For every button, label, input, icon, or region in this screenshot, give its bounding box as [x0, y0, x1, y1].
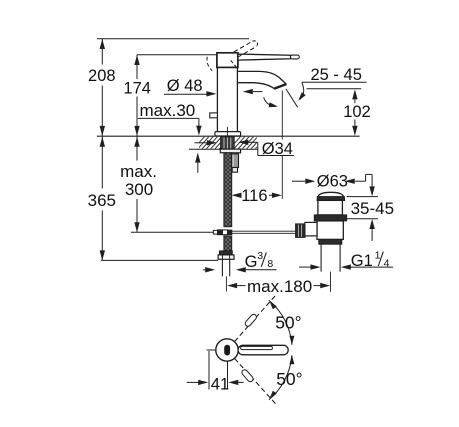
drain bottom collar — [319, 239, 342, 244]
mounting washer — [220, 149, 240, 153]
pull rod right segment (double line) — [232, 230, 304, 232]
svg-text:G1: G1 — [351, 252, 373, 270]
raised handle position dashed — [234, 41, 253, 52]
dim 174 vertical line — [136, 55, 138, 79]
left tick — [207, 349, 216, 351]
drain clamp ring — [314, 215, 346, 221]
hose ferrule — [219, 251, 232, 255]
body left tab — [210, 113, 218, 118]
capsule lower — [241, 369, 254, 383]
svg-text:4: 4 — [384, 257, 390, 269]
handle swing dashed mark right — [231, 60, 237, 68]
svg-text:35-45: 35-45 — [351, 199, 394, 218]
svg-text:116: 116 — [241, 187, 267, 205]
dim 41 arrows — [187, 381, 199, 383]
svg-text:365: 365 — [88, 191, 116, 210]
top reference line (max handle height) — [97, 38, 249, 40]
svg-text:300: 300 — [125, 180, 153, 199]
dim 41 extension lines — [208, 351, 210, 390]
mounting stud — [232, 154, 239, 168]
dim 365 vertical line — [101, 137, 103, 189]
dim max180 — [227, 283, 237, 288]
svg-text:50°: 50° — [275, 313, 301, 333]
dim Ø48 leader — [164, 93, 207, 95]
365 bottom reference line — [101, 259, 218, 261]
drain lower body — [317, 221, 343, 240]
svg-text:max.30: max.30 — [140, 101, 196, 120]
svg-text:G: G — [245, 253, 258, 271]
threaded shank — [221, 137, 235, 149]
drain centerline extension — [330, 272, 332, 292]
svg-text:50°: 50° — [276, 369, 302, 389]
lower 50 deg arc — [269, 355, 292, 400]
dim 35-45 — [371, 174, 373, 186]
stream angle arc right — [300, 82, 303, 99]
handle swing dashed arc left — [207, 57, 212, 71]
dim Ø63 — [292, 180, 305, 182]
upper 50 deg arc — [269, 300, 292, 345]
aerator face — [274, 84, 286, 89]
capsule upper — [244, 313, 257, 327]
drain upper body — [318, 200, 343, 215]
faucet centerline mark — [226, 127, 228, 136]
svg-text:Ø63: Ø63 — [317, 172, 348, 190]
drain flange dark band — [317, 197, 344, 201]
svg-text:41: 41 — [211, 375, 229, 393]
dim max300 vertical line — [136, 137, 138, 161]
dim Ø34 arrows — [195, 142, 207, 144]
dim max30 leader — [138, 117, 199, 119]
braided hose lower — [224, 236, 232, 251]
handle at +50 deg dashed — [235, 295, 276, 341]
svg-text:max.: max. — [120, 162, 157, 181]
svg-text:Ø 48: Ø 48 — [167, 77, 203, 95]
G3/8 nut — [218, 255, 234, 259]
handle at -50 deg dashed — [235, 358, 277, 404]
cap-top extension line — [137, 54, 217, 56]
drain tailpipe — [320, 244, 322, 271]
dim G3/8 arrows — [203, 269, 206, 271]
top view faucet circle — [216, 339, 238, 361]
svg-text:max.180: max.180 — [247, 277, 312, 296]
svg-text:1: 1 — [375, 249, 381, 261]
drain flange dome — [317, 192, 344, 200]
stream angle arc left — [264, 97, 276, 106]
countertop bottom line — [189, 148, 258, 150]
svg-text:25 - 45: 25 - 45 — [311, 66, 362, 84]
spout outlet level line — [307, 88, 362, 90]
svg-text:Ø34: Ø34 — [262, 140, 293, 158]
svg-text:174: 174 — [123, 80, 151, 98]
water stream line — [286, 89, 298, 107]
lever handle side view — [238, 54, 291, 60]
svg-text:8: 8 — [267, 258, 273, 270]
pull rod left segment — [131, 231, 214, 233]
rod coupling / tee — [213, 230, 217, 234]
knurled knob — [296, 224, 305, 238]
faucet cartridge cap — [217, 53, 238, 68]
svg-text:208: 208 — [88, 67, 116, 85]
top view lever — [238, 345, 288, 355]
dim 102 vertical — [354, 99, 356, 103]
hose centerline extension — [225, 276, 227, 291]
countertop top line — [97, 135, 360, 137]
dim 116 — [232, 193, 242, 198]
rod coupling block — [305, 222, 317, 236]
spout outline — [238, 71, 286, 84]
connection tube — [221, 259, 223, 276]
svg-text:3: 3 — [257, 250, 263, 262]
top view slot — [225, 345, 230, 355]
spout outlet extension line — [281, 91, 283, 140]
stud tip — [232, 168, 237, 173]
faucet base ring — [215, 132, 241, 136]
dim G1 1/4 — [299, 266, 311, 268]
faucet body sides — [216, 67, 218, 131]
svg-text:102: 102 — [343, 103, 371, 121]
dim 208 vertical line — [101, 39, 103, 65]
